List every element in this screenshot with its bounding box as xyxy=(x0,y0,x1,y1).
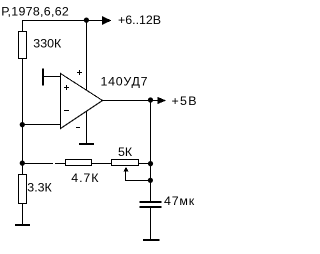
svg-text:3.3К: 3.3К xyxy=(27,181,52,195)
wire: op-amp output xyxy=(102,100,158,102)
ground: below 3.3K xyxy=(15,224,30,226)
svg-text:47мк: 47мк xyxy=(164,194,195,208)
wire: wiper to output rail xyxy=(125,180,151,182)
pin marker: positive supply + xyxy=(77,70,82,75)
pin marker: non-inverting input + xyxy=(64,85,69,90)
pin marker: inverting input - xyxy=(64,110,69,112)
svg-text:5К: 5К xyxy=(118,145,133,159)
part label 140УД7 xyxy=(101,74,149,88)
wire: pot right lead xyxy=(139,163,151,165)
ground: below capacitor xyxy=(143,239,160,241)
wire: 3.3K bottom lead xyxy=(22,204,24,224)
svg-text:330К: 330К xyxy=(33,37,62,51)
wire: top supply rail xyxy=(22,20,103,22)
resistor 3.3K xyxy=(19,175,27,204)
potentiometer 5K body xyxy=(112,160,139,166)
value label 47мк xyxy=(164,194,195,208)
svg-text:140УД7: 140УД7 xyxy=(101,74,149,88)
svg-text:+6..12В: +6..12В xyxy=(118,13,161,27)
value label 3.3К xyxy=(27,181,52,195)
value label 330К xyxy=(33,37,62,51)
node: junction of +V rail and op-amp V+ pin xyxy=(84,18,89,23)
pin marker: negative supply - xyxy=(76,127,80,129)
wire: left rail top segment xyxy=(22,20,24,32)
net label +5В xyxy=(172,94,198,108)
arrow: +5V output xyxy=(158,97,167,104)
potentiometer wiper arrow xyxy=(124,167,129,181)
wire: positive supply pin xyxy=(86,20,88,90)
resistor 330K xyxy=(19,32,27,59)
node: output junction xyxy=(148,97,153,102)
svg-text:+5В: +5В xyxy=(172,94,198,108)
ground: op-amp negative supply xyxy=(79,143,94,145)
source label Р,1978,6,62 xyxy=(1,4,69,18)
capacitor 47мк xyxy=(140,202,162,207)
wire: left rail middle segment xyxy=(22,59,24,175)
node: inverting input junction xyxy=(20,122,25,127)
node: wiper junction on rail xyxy=(148,178,153,183)
wire: feedback row left segment xyxy=(22,163,66,165)
op-amp 140УД7 triangle xyxy=(61,74,103,129)
node: feedback row left junction xyxy=(20,161,25,166)
wire: negative supply pin xyxy=(86,111,88,144)
net label +6..12В xyxy=(118,13,161,27)
value label 5К xyxy=(118,145,133,159)
wire: output rail down to capacitor xyxy=(150,100,152,202)
value label 4.7К xyxy=(71,171,99,185)
resistor 4.7K xyxy=(66,160,92,166)
wire: non-inverting input xyxy=(42,76,61,78)
arrow: +6..12V supply input xyxy=(102,16,111,25)
svg-text:Р,1978,6,62: Р,1978,6,62 xyxy=(1,4,69,18)
svg-text:4.7К: 4.7К xyxy=(71,171,99,185)
wire: inverting input xyxy=(22,124,61,126)
wire: capacitor bottom lead xyxy=(150,208,152,240)
wire: between 4.7K and 5K pot xyxy=(92,163,112,165)
ground: non-inverting input terminal bar xyxy=(42,69,44,86)
node: pot right lead junction xyxy=(148,161,153,166)
